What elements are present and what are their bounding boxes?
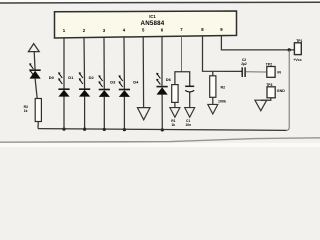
wire: pin 1 to LED D1 <box>63 38 65 89</box>
svg-text:1k: 1k <box>171 123 175 127</box>
node dot D6/rail <box>161 128 164 131</box>
wire: pin 5 down <box>142 37 144 108</box>
LED D4 <box>119 75 140 97</box>
IC IC1 AN5884 body <box>55 11 237 38</box>
wire: pin 9 down and right to TP1 <box>221 36 294 50</box>
LED D1 <box>58 72 74 96</box>
ground arrow (pin 5) <box>137 108 150 120</box>
wire: right vertical drop to rail <box>286 50 289 130</box>
wire: tee bar over R1 and C1 <box>175 72 190 87</box>
LED D2 <box>79 72 95 96</box>
wire: R1 to its ground arrow <box>174 102 176 107</box>
svg-text:D6: D6 <box>166 77 172 82</box>
svg-text:C2: C2 <box>242 58 246 62</box>
bottom border line <box>0 138 320 142</box>
capacitor C1 <box>185 86 194 127</box>
wire: LED D4 to rail <box>123 97 125 130</box>
wire: R3 to ground rail <box>37 122 39 129</box>
wire: pin 8 down and right to C2 <box>203 36 242 72</box>
wire: supply arrow to LED D0 <box>33 52 36 71</box>
+V supply arrow (top of D0 column) <box>28 44 39 52</box>
svg-text:AN5884: AN5884 <box>141 20 165 27</box>
resistor R2 <box>210 76 226 104</box>
LED D0 <box>29 63 54 80</box>
wire: pin 4 to LED D4 <box>123 37 125 89</box>
node dot D1/rail <box>62 127 65 130</box>
wire: LED D1 to rail <box>63 96 65 129</box>
top border line <box>0 1 320 4</box>
capacitor C2 <box>241 58 247 77</box>
svg-text:IC1: IC1 <box>149 14 156 19</box>
wire: C2 to TP2 <box>246 71 267 73</box>
resistor R1 <box>171 85 178 127</box>
svg-text:100k: 100k <box>218 100 226 104</box>
svg-text:D1: D1 <box>68 75 74 80</box>
LED D6 <box>156 73 171 95</box>
wire: LED D3 to rail <box>103 97 105 130</box>
svg-text:10n: 10n <box>185 123 191 127</box>
test point TP2 (IN) <box>266 62 282 77</box>
test point TP1 (+Vcc) <box>293 39 302 62</box>
ground arrow (R2) <box>208 104 218 114</box>
wire: LED D0 to resistor R3 <box>35 79 37 99</box>
svg-text:GND: GND <box>277 89 285 93</box>
wire: LED D2 to rail <box>84 96 86 129</box>
svg-text:D0: D0 <box>49 75 55 80</box>
svg-text:R2: R2 <box>221 86 226 90</box>
wire: pin 3 to LED D3 <box>103 37 105 89</box>
wire: pin 2 to LED D2 <box>83 38 86 90</box>
svg-text:D3: D3 <box>110 80 116 85</box>
wire: pin 6 to LED D6 <box>161 36 163 86</box>
wire: TP3 to its ground arrow <box>261 98 271 100</box>
svg-text:D2: D2 <box>89 75 95 80</box>
wire: R2 to its ground arrow <box>212 97 214 104</box>
svg-text:+Vcc: +Vcc <box>293 58 301 62</box>
resistor R3 <box>24 99 42 122</box>
svg-text:TP2: TP2 <box>266 62 272 66</box>
ground arrow (R1) <box>170 108 180 118</box>
wire: C1 to its ground arrow <box>189 92 191 107</box>
node dot D2/rail <box>83 128 86 131</box>
svg-text:2µ2: 2µ2 <box>241 62 247 66</box>
node dot D4/rail <box>123 128 126 131</box>
node dot Vcc/right drop <box>288 48 291 51</box>
svg-text:D4: D4 <box>133 80 139 85</box>
wire: bottom ground rail <box>38 129 286 131</box>
svg-text:1k: 1k <box>24 109 28 113</box>
wire: R2 top lead <box>212 71 214 76</box>
wire: pin 7 down to tee <box>181 36 183 72</box>
node dot D3/rail <box>103 128 106 131</box>
ground arrow (C1) <box>185 108 195 118</box>
test point TP3 (GND) <box>266 83 285 98</box>
LED D3 <box>98 75 116 97</box>
svg-text:IN: IN <box>277 71 281 75</box>
ground arrow (TP3) <box>255 100 267 111</box>
wire: LED D6 to rail <box>161 94 163 130</box>
